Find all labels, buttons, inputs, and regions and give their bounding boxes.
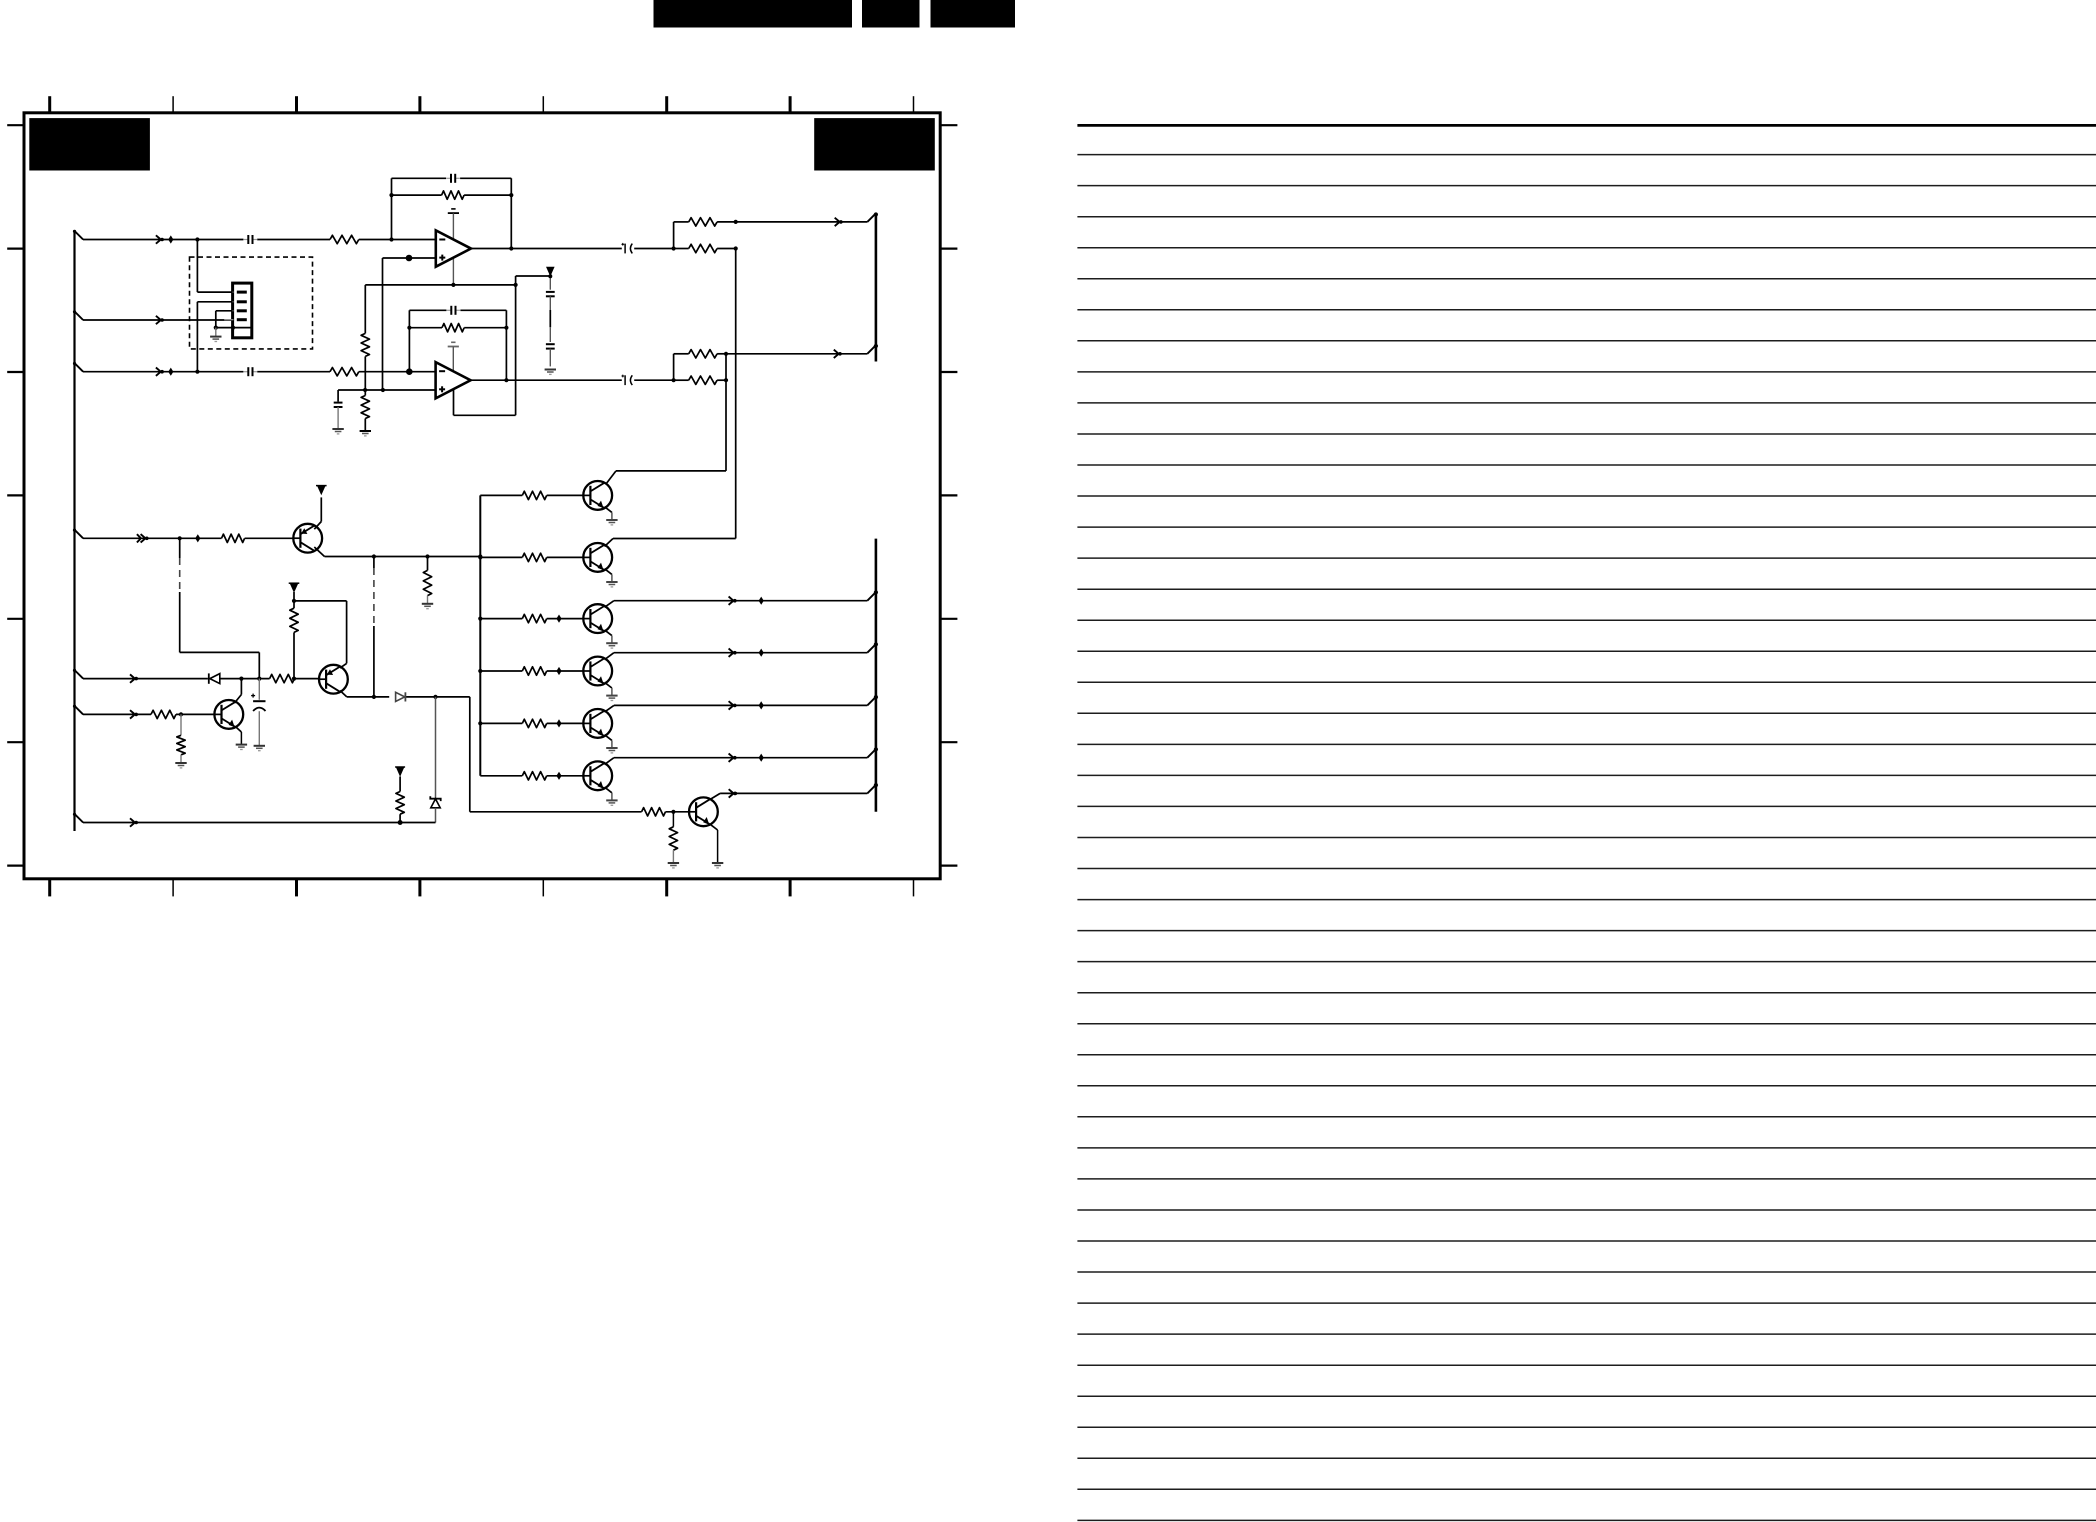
wire input 4 (drive line) bbox=[83, 537, 293, 539]
wire T1 emitter bbox=[605, 507, 612, 520]
ground (T6 emitter) bbox=[606, 800, 617, 805]
bus entry wedge (output 2) bbox=[867, 644, 876, 653]
wire bottom resistor rail (U1A out) bbox=[674, 248, 736, 250]
feedback loop left vertical (U1B) bbox=[408, 310, 410, 371]
wire Q3 emitter bbox=[236, 727, 242, 745]
resistor R15 (Q3 base series) bbox=[151, 710, 176, 718]
ruled lines (notes panel, 45 thin rules) bbox=[1077, 155, 2096, 1521]
capacitor C4 (U1B feedback) bbox=[447, 306, 461, 315]
capacitor C9 (U1B output coupling, polarized) bbox=[621, 375, 632, 386]
wire output channel A bbox=[736, 221, 868, 223]
diode D2 (emitter line, pointing right) bbox=[396, 692, 406, 701]
junction (base bus / T3) bbox=[478, 617, 482, 621]
node diamond (T5 base) bbox=[556, 719, 561, 727]
junction (bus2 entry 2) bbox=[874, 642, 878, 646]
bus entry wedge (input 7) bbox=[73, 813, 83, 823]
resistor R19 (T2 base) bbox=[522, 553, 546, 561]
wire riser top to V+ arrow bbox=[516, 275, 551, 277]
bus entry wedge (input 6) bbox=[73, 705, 83, 715]
resistor R20 (T3 base) bbox=[522, 614, 546, 622]
arrow (input 4, double chevron) bbox=[137, 534, 149, 542]
arrow (input 2 signal direction) bbox=[156, 316, 164, 324]
supply arrow V+ (Q2) bbox=[289, 583, 300, 593]
node dot (U1B - input) bbox=[406, 368, 413, 375]
U1A power stem bbox=[452, 213, 454, 285]
junction (base bus / T5) bbox=[478, 721, 482, 725]
redaction block (top header left) bbox=[654, 0, 853, 28]
arrow (output 3) bbox=[729, 701, 737, 709]
wire input 2 (middle channel) bbox=[83, 319, 233, 321]
resistor R22 (T5 base) bbox=[522, 719, 546, 727]
capacitor C7 (decoupling upper) bbox=[546, 292, 555, 296]
junction (U1A output split) bbox=[672, 246, 676, 250]
bus entry wedge (input 2) bbox=[73, 310, 83, 320]
supply arrow V+ (op-amp section) bbox=[546, 267, 555, 277]
junction (input 7 / R17) bbox=[398, 820, 403, 825]
node diamond (output 2) bbox=[759, 649, 764, 657]
resistor R16 (Q3 base shunt) bbox=[177, 714, 185, 762]
transistor Q2 (PNP driver) bbox=[319, 665, 348, 694]
resistor R1 (input 1 series) bbox=[330, 235, 359, 243]
resistor R13 (Q2 base) bbox=[270, 674, 295, 682]
sheet coordinate ticks (top edge) bbox=[50, 96, 914, 113]
wire input 1 (top channel) bbox=[83, 239, 436, 241]
feedback loop right vertical (U1B) bbox=[505, 310, 507, 380]
ruled line (thick top rule of notes panel) bbox=[1077, 124, 2096, 127]
junction (R14 / base wire) bbox=[292, 677, 296, 681]
wire Q4 collector bbox=[710, 793, 867, 799]
U1B power stem bbox=[452, 347, 454, 380]
wire top resistor rail (U1A out) bbox=[674, 221, 736, 223]
junction (U1A fb rail left) bbox=[389, 193, 393, 197]
feedback loop right vertical (U1A) bbox=[510, 178, 512, 248]
arrow (output 1) bbox=[729, 597, 737, 605]
wire Q2 emitter bbox=[340, 691, 470, 697]
wire C6 to ground bbox=[337, 407, 339, 429]
wire bottom resistor rail (U1B out) bbox=[674, 379, 726, 381]
wire J1 pin3 to shield node bbox=[216, 311, 233, 328]
wire T5 emitter bbox=[605, 735, 612, 748]
vertical link to T2 collector bbox=[735, 249, 737, 539]
junction (U1A inverting node) bbox=[389, 237, 393, 241]
wire input 7 (bottom line) bbox=[83, 822, 436, 824]
wire T3 emitter bbox=[605, 630, 612, 643]
junction (R5 bottom node) bbox=[363, 388, 367, 392]
bus entry wedge (input 3) bbox=[73, 362, 83, 372]
redaction block (title area inside frame, left) bbox=[29, 118, 150, 170]
ground (T3 emitter) bbox=[606, 643, 617, 648]
ground (C10) bbox=[254, 746, 265, 751]
wire J1 pin2 to input3 bbox=[197, 302, 232, 372]
bus entry wedge (Q4 output) bbox=[867, 785, 876, 794]
resistor R4 (U1B feedback) bbox=[442, 324, 464, 332]
wire U1B non-inverting input bbox=[365, 389, 436, 391]
capacitor C10 (polarized, emitter node) bbox=[251, 679, 265, 746]
wire T2 emitter bbox=[605, 569, 612, 582]
wire U1B output bbox=[471, 379, 674, 381]
wire T2 collector bbox=[605, 539, 736, 547]
resistor R10 (U1B out lower) bbox=[689, 376, 717, 384]
op-amp U1B bbox=[436, 362, 471, 398]
resistor R6 (bias lower) bbox=[361, 396, 369, 419]
ground (R16) bbox=[175, 763, 186, 768]
capacitor C3 (U1A feedback) bbox=[446, 174, 460, 183]
transistor T5 (NPN array) bbox=[583, 709, 612, 738]
vertical link to T1 collector bbox=[725, 354, 727, 471]
wire Q4 emitter bbox=[710, 824, 718, 862]
junction (input 4 tap) bbox=[178, 536, 182, 540]
transistor Q3 (NPN) bbox=[214, 700, 243, 729]
redaction block (top header right) bbox=[931, 0, 1016, 28]
transistor Q4 (NPN, output) bbox=[689, 797, 718, 826]
redaction block (top header middle) bbox=[862, 0, 920, 28]
wire resistor pair link (U1A out) bbox=[673, 222, 675, 249]
junction (U1A output node) bbox=[509, 246, 513, 250]
ground (R25) bbox=[668, 863, 679, 868]
dashed link (rail to Q2 emitter node) bbox=[373, 557, 375, 697]
ground (T4 emitter) bbox=[606, 696, 617, 701]
op-amp U1A bbox=[436, 230, 471, 266]
connector J1 internal divider bbox=[233, 327, 251, 329]
wire T2 base bbox=[480, 556, 583, 558]
ground (bias divider) bbox=[360, 431, 371, 436]
junction (bus2 entry 4) bbox=[874, 747, 878, 751]
bus entry wedge (output A) bbox=[867, 213, 876, 222]
analog reference symbol above U1B bbox=[448, 342, 459, 346]
ground (C6) bbox=[332, 429, 343, 434]
junction (R7 right) bbox=[734, 220, 738, 224]
wire U1B power pin down bbox=[453, 389, 455, 415]
junction (Q4 base / R25) bbox=[671, 810, 675, 814]
wire Q1 emitter to V+ bbox=[314, 497, 321, 529]
wire V+ to R14 bbox=[293, 592, 295, 608]
capacitor C8 (decoupling lower) bbox=[546, 344, 555, 348]
junction (R8 right) bbox=[734, 246, 738, 250]
transistor T1 (NPN array) bbox=[583, 481, 612, 510]
node diamond (T4 base) bbox=[556, 667, 561, 675]
wire + node to C6 bbox=[338, 390, 365, 402]
connector J1 pins (4 contacts) bbox=[237, 291, 247, 322]
junction (D1 wire / Q3 collector) bbox=[239, 677, 243, 681]
shield dashed box (connector area) bbox=[190, 257, 313, 349]
junction (U1B fb rail right) bbox=[504, 326, 508, 330]
capacitor C1 (input 1 coupling) bbox=[244, 235, 258, 244]
node diamond (input 4) bbox=[195, 534, 200, 542]
node diamond (output 4) bbox=[759, 754, 764, 762]
ground (connector shield) bbox=[210, 328, 221, 342]
wire Q1 collector rail bbox=[314, 547, 480, 557]
junction (U1B fb rail left) bbox=[407, 326, 411, 330]
wire T6 emitter bbox=[605, 787, 612, 800]
zener diode D3 bbox=[430, 796, 440, 822]
base bus (transistor row) bbox=[479, 495, 481, 775]
resistor R24 (Q4 base) bbox=[642, 808, 666, 816]
wire zener drop bbox=[435, 697, 437, 799]
bus entry wedge (input 4) bbox=[73, 529, 83, 539]
feedback cap rail (U1A) bbox=[392, 177, 512, 179]
junction (bus1 lower entry) bbox=[874, 344, 878, 348]
wire T4 emitter bbox=[605, 682, 612, 695]
wire output channel B bbox=[726, 353, 867, 355]
wire U1B power to riser bbox=[454, 414, 516, 416]
bus entry wedge (input 1) bbox=[73, 230, 83, 240]
resistor R12 (rail load) bbox=[423, 557, 431, 604]
wire input 3 bbox=[83, 371, 436, 373]
junction (input 1 / connector tap) bbox=[195, 237, 199, 241]
ground (T1 emitter) bbox=[606, 520, 617, 525]
resistor R21 (T4 base) bbox=[522, 667, 546, 675]
wire T3 base bbox=[480, 618, 583, 620]
junction (base / R16) bbox=[179, 712, 183, 716]
bus entry wedge (output 3) bbox=[867, 697, 876, 706]
wire T5 base bbox=[480, 722, 583, 724]
junction (bus2 entry 3) bbox=[874, 695, 878, 699]
wire output channel 1 (T3 collector) bbox=[605, 601, 868, 608]
wire input 5 (diode line) bbox=[83, 678, 319, 680]
capacitor C2 (input 3 coupling) bbox=[244, 367, 258, 376]
redaction block (title area inside frame, right) bbox=[814, 118, 935, 170]
wire + node to R6 bbox=[364, 390, 366, 396]
ground (T5 emitter) bbox=[606, 748, 617, 753]
junction (shield node) bbox=[214, 326, 235, 330]
wire rail corner to R5 bbox=[364, 285, 366, 334]
wire Q2 collector loop bbox=[294, 601, 347, 668]
arrow (input 5 direction) bbox=[130, 674, 138, 682]
connector J1 (4-pin header body) bbox=[233, 283, 252, 338]
resistor R5 (bias upper) bbox=[361, 333, 369, 356]
arrow (output 2) bbox=[729, 649, 737, 657]
wire T6 base bbox=[480, 775, 583, 777]
junction (bus2 entry 1) bbox=[874, 590, 878, 594]
wire R6 to ground bbox=[364, 419, 366, 431]
junction (R10 right) bbox=[724, 378, 728, 382]
wire Q3 collector bbox=[235, 679, 242, 703]
feedback cap rail (U1B) bbox=[409, 309, 506, 311]
wire R5 to + node bbox=[364, 356, 366, 390]
wire T1 collector rail bbox=[606, 471, 726, 485]
arrow (output A direction) bbox=[835, 218, 843, 226]
junction (+ link node) bbox=[381, 388, 385, 392]
wire input1 tap to J1 pin1 bbox=[197, 240, 232, 293]
schematic sheet border frame bbox=[24, 113, 940, 879]
feedback loop left vertical (U1A) bbox=[391, 178, 393, 239]
arrow (input 3 signal direction) bbox=[156, 368, 164, 376]
bus entry wedge (output 1) bbox=[867, 592, 876, 601]
feedback resistor rail (U1A) bbox=[392, 194, 512, 196]
transistor T3 (NPN array) bbox=[583, 604, 612, 633]
wire T1 base bbox=[480, 494, 583, 496]
wire input 6 (Q3 base line) bbox=[83, 713, 214, 715]
junction (rail/dashed drop) bbox=[372, 554, 376, 558]
resistor R9 (U1B out upper) bbox=[689, 350, 717, 358]
junction (U1B output node) bbox=[504, 378, 508, 382]
ground (R12) bbox=[422, 604, 433, 609]
junction (D1 wire / C10 tap) bbox=[257, 677, 261, 681]
junction (rail to supply riser) bbox=[514, 283, 518, 287]
junction (base bus / T4) bbox=[478, 669, 482, 673]
node diamond (input 1) bbox=[168, 235, 173, 243]
dashed link (input4 tap down) bbox=[180, 538, 260, 678]
node diamond (T6 base) bbox=[556, 772, 561, 780]
analog reference symbol above U1A bbox=[448, 209, 459, 213]
wire T4 base bbox=[480, 670, 583, 672]
junction (bus1 top) bbox=[874, 212, 878, 216]
node diamond (output 1) bbox=[759, 597, 764, 605]
arrow (Q4 collector out) bbox=[729, 789, 738, 797]
wire output channel 2 (T4 collector) bbox=[605, 653, 868, 660]
ground (decoupling) bbox=[545, 370, 556, 375]
wire R17 to input7 bbox=[399, 814, 401, 822]
resistor R3 (U1A feedback) bbox=[442, 191, 465, 199]
junction (bus2 / Q4) bbox=[874, 783, 878, 787]
resistor R14 (collector feed) bbox=[290, 608, 298, 632]
resistor R25 (Q4 base shunt) bbox=[669, 812, 677, 863]
sheet coordinate ticks (left edge) bbox=[7, 125, 24, 865]
bus entry wedge (input 5) bbox=[73, 669, 83, 679]
wire supply riser bbox=[515, 276, 517, 415]
wire V+ stem bbox=[548, 274, 552, 290]
output bus 1 (op-amp outputs) bbox=[875, 213, 878, 362]
transistor T2 (NPN array) bbox=[583, 543, 612, 572]
capacitor C5 (U1A output coupling, polarized) bbox=[621, 243, 632, 254]
junction (collector loop / R14) bbox=[292, 599, 296, 603]
ground (T2 emitter) bbox=[606, 582, 617, 587]
node diamond (output 3) bbox=[759, 701, 764, 709]
junction (U1B output split) bbox=[672, 378, 676, 382]
arrow (output 4) bbox=[729, 754, 737, 762]
connector J1 pin leads bbox=[224, 292, 233, 320]
sheet coordinate ticks (bottom edge) bbox=[50, 880, 914, 897]
wire U1A + to U1B + (vertical link) bbox=[382, 258, 384, 390]
resistor R23 (T6 base) bbox=[522, 772, 546, 780]
arrow (input 6 direction) bbox=[130, 710, 138, 718]
wire output channel 4 (T6 collector) bbox=[605, 758, 868, 765]
ground (Q4 emitter) bbox=[712, 863, 723, 868]
junction (power pin U1A on rail) bbox=[451, 283, 455, 287]
sheet coordinate ticks (right edge) bbox=[940, 125, 957, 865]
wire V+ to R17 bbox=[399, 777, 401, 792]
supply arrow V+ (zener bias) bbox=[395, 767, 405, 777]
wire resistor pair link (U1B out) bbox=[673, 354, 675, 380]
resistor R7 (U1A out upper) bbox=[689, 218, 717, 226]
arrow (input 7 direction) bbox=[130, 818, 138, 826]
capacitor C6 (bias decoupling) bbox=[334, 403, 343, 407]
resistor R11 (Q1 base) bbox=[222, 534, 245, 542]
resistor R8 (U1A out lower) bbox=[689, 244, 717, 252]
junction (D2 / zener tap) bbox=[433, 695, 437, 699]
arrow (input 1 signal direction) bbox=[156, 235, 164, 243]
junction (rail/R12) bbox=[425, 554, 429, 558]
node diamond (T3 base) bbox=[556, 615, 561, 623]
resistor R18 (T1 base) bbox=[522, 491, 546, 499]
wire Q4 base feed bbox=[470, 697, 689, 812]
junction (R9 right) bbox=[724, 352, 728, 356]
junction (input 3 / connector tap) bbox=[195, 370, 199, 374]
wire U1A non-inverting input bbox=[383, 257, 436, 259]
bus entry wedge (output B) bbox=[867, 345, 876, 354]
wire C8 to ground bbox=[549, 349, 551, 367]
arrow (output B direction) bbox=[834, 350, 842, 358]
diode D1 (input 5, cathode left) bbox=[209, 673, 220, 683]
bus entry wedge (output 4) bbox=[867, 749, 876, 758]
ground (Q3 emitter) bbox=[236, 745, 247, 750]
node dot (U1A + input) bbox=[406, 255, 413, 262]
supply arrow V+ (Q1) bbox=[316, 486, 327, 496]
resistor R17 (zener bias) bbox=[396, 792, 404, 815]
resistor R2 (input 3 series) bbox=[330, 368, 359, 376]
input bus (left vertical bus line) bbox=[73, 231, 75, 832]
junction (rail/base bus) bbox=[478, 554, 482, 558]
wire U1A output bbox=[471, 248, 674, 250]
wire C7 to C8 bbox=[549, 296, 551, 342]
transistor Q1 (driver, PNP) bbox=[293, 524, 322, 553]
junction (emitter / dashed link) bbox=[372, 695, 376, 699]
junction (U1A fb rail right) bbox=[509, 193, 513, 197]
wire top resistor rail (U1B out) bbox=[674, 353, 726, 355]
transistor T6 (NPN array) bbox=[583, 761, 612, 790]
wire supply rail (op-amp power) bbox=[365, 284, 515, 286]
output bus 2 (transistor outputs) bbox=[875, 539, 878, 812]
wire R14 to base node bbox=[293, 632, 295, 678]
feedback resistor rail (U1B) bbox=[409, 327, 506, 329]
node diamond (input 3) bbox=[168, 368, 173, 376]
wire output channel 3 (T5 collector) bbox=[605, 705, 868, 712]
transistor T4 (NPN array) bbox=[583, 657, 612, 686]
junction (base bus / T2) bbox=[478, 555, 482, 559]
